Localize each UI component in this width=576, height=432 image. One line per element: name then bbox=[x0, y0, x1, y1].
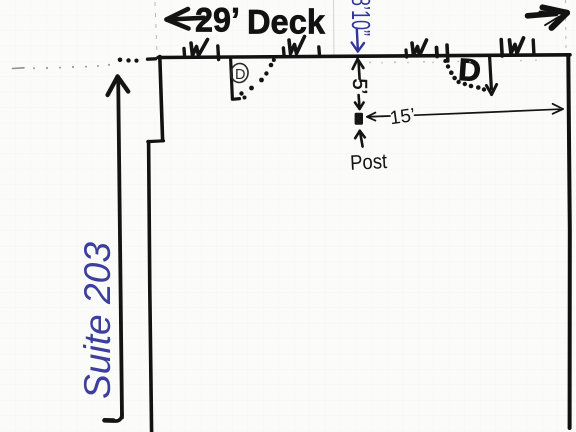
dimension 5' up arrow bbox=[353, 59, 364, 79]
dimension 5' down arrow bbox=[355, 95, 364, 109]
svg-text:29’: 29’ bbox=[195, 2, 240, 40]
wall left lower bbox=[149, 142, 152, 432]
door D2 swing arc (dotted) bbox=[443, 59, 486, 92]
arrow left (deck dimension) bbox=[167, 9, 205, 29]
wall top bbox=[158, 55, 570, 58]
svg-text:Post: Post bbox=[350, 150, 388, 175]
svg-text:Suite 203: Suite 203 bbox=[77, 242, 118, 399]
faint crease line above right corner bbox=[565, 0, 568, 52]
arrow top right (direction) bbox=[528, 7, 568, 27]
wall right bbox=[568, 55, 570, 428]
faint crease line above left corner bbox=[155, 2, 157, 52]
window W3 bbox=[406, 40, 448, 61]
dotted wall continuation bbox=[118, 58, 156, 63]
svg-text:15’: 15’ bbox=[389, 105, 417, 129]
arrow up to post bbox=[355, 131, 365, 147]
door D2 leaf with arrow bbox=[486, 57, 496, 95]
dimension arrow for Suite 203 (vertical, left) bbox=[105, 77, 129, 422]
arrow down (blue) bbox=[352, 29, 364, 52]
window W4 bbox=[501, 38, 534, 56]
label D1 (circled) bbox=[230, 62, 249, 83]
door D1 swing arc (dotted) bbox=[239, 58, 275, 100]
svg-text:8’10”: 8’10” bbox=[346, 0, 376, 36]
dimension 15' left arrowhead bbox=[367, 113, 390, 121]
faint dotted trail to left edge bbox=[13, 64, 111, 70]
wall left jog bbox=[148, 139, 164, 143]
window W2 bbox=[283, 37, 319, 55]
faint crease line mid top bbox=[333, 0, 336, 56]
svg-text:D: D bbox=[235, 67, 245, 83]
wall left upper bbox=[160, 57, 163, 141]
door D1 leaf bbox=[231, 58, 240, 99]
dimension 15' line with right arrowhead bbox=[415, 104, 564, 115]
svg-text:Deck: Deck bbox=[247, 4, 326, 42]
window W1 bbox=[184, 40, 219, 60]
faint dotted trail below wall (scan shadow) bbox=[369, 59, 537, 63]
svg-text:5’: 5’ bbox=[348, 79, 370, 95]
post marker (filled square) bbox=[355, 113, 363, 125]
svg-text:D: D bbox=[457, 52, 482, 88]
